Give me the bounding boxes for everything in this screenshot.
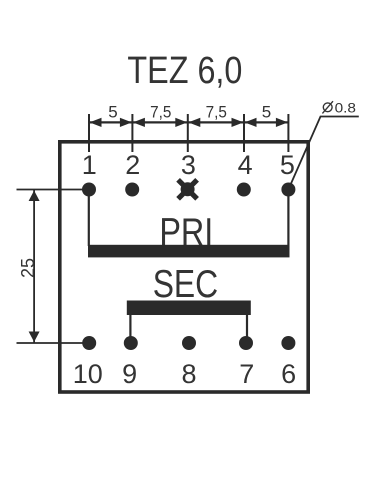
pin 5 pad	[281, 183, 295, 197]
svg-text:6: 6	[281, 359, 296, 389]
pin 7 pad	[239, 336, 253, 350]
leader line to pin 5	[288, 117, 358, 190]
dimension line 1-2	[89, 118, 132, 127]
pin 1 pad	[82, 183, 96, 197]
vertical dimension line 25	[29, 190, 40, 343]
svg-text:9: 9	[122, 359, 137, 389]
svg-text:4: 4	[238, 150, 253, 180]
pin 10 pad	[82, 336, 96, 350]
pin 6 pad	[281, 336, 295, 350]
transformer body outline	[60, 142, 308, 392]
svg-text:2: 2	[125, 150, 140, 180]
extension tick pin5	[287, 114, 289, 152]
svg-text:1: 1	[82, 150, 97, 180]
leader value label 0.8	[335, 101, 356, 116]
svg-text:7,5: 7,5	[150, 103, 171, 122]
svg-text:25: 25	[18, 258, 38, 278]
svg-text:TEZ 6,0: TEZ 6,0	[127, 50, 242, 92]
svg-text:SEC: SEC	[153, 262, 218, 306]
primary winding bar	[88, 245, 290, 258]
pin 9 pad	[124, 336, 138, 350]
pin 4 pad	[237, 183, 251, 197]
upper extension line of 25 dimension	[17, 189, 90, 191]
lower extension line of 25 dimension	[17, 342, 90, 344]
svg-text:7,5: 7,5	[206, 103, 227, 122]
pin 3 pad (removed, X mark)	[178, 180, 197, 199]
PRI label	[159, 210, 213, 254]
svg-text:3: 3	[181, 150, 196, 180]
wire secondary bar to pin7	[246, 315, 248, 343]
dimension label 7,5 (pins 2-3)	[150, 103, 171, 122]
svg-text:7: 7	[239, 359, 254, 389]
wire pin5 to primary bar	[287, 190, 289, 247]
secondary winding bar	[127, 301, 251, 316]
wire secondary bar to pin9	[129, 315, 131, 343]
wire pin1 to primary bar	[88, 190, 90, 247]
diameter symbol of leader label	[322, 101, 333, 113]
dimension line 2-3	[132, 118, 187, 127]
extension tick pin2	[131, 114, 133, 152]
extension tick pin3	[187, 114, 189, 152]
pin 8 pad	[182, 336, 196, 350]
SEC label	[153, 262, 218, 306]
dimension line 3-4	[188, 118, 244, 127]
svg-text:8: 8	[181, 359, 196, 389]
extension tick pin4	[243, 114, 245, 152]
title TEZ 6,0	[127, 50, 242, 92]
svg-text:5: 5	[280, 150, 295, 180]
svg-text:5: 5	[262, 102, 271, 121]
svg-text:5: 5	[108, 102, 117, 121]
pin 2 pad	[125, 183, 139, 197]
dimension label 7,5 (pins 3-4)	[206, 103, 227, 122]
svg-text:10: 10	[73, 359, 103, 389]
extension tick pin1	[88, 114, 90, 152]
dimension line 4-5	[244, 118, 288, 127]
dimension label 25 (rotated)	[18, 258, 38, 278]
svg-text:0.8: 0.8	[335, 101, 356, 116]
